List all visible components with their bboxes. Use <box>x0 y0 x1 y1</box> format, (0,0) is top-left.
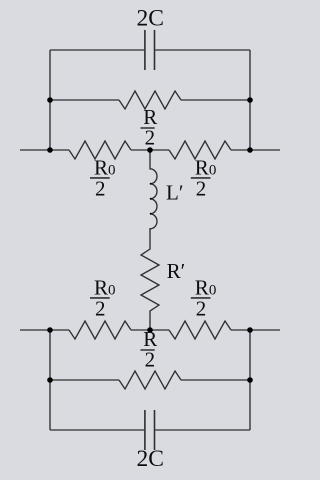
svg-text:L′: L′ <box>166 180 183 204</box>
svg-text:2: 2 <box>95 296 106 320</box>
svg-text:2: 2 <box>95 176 106 200</box>
svg-text:2: 2 <box>196 176 207 200</box>
svg-text:R′: R′ <box>167 259 186 283</box>
svg-text:2: 2 <box>145 347 156 371</box>
svg-text:2C: 2C <box>136 446 163 472</box>
svg-text:2: 2 <box>145 125 156 149</box>
svg-text:2C: 2C <box>136 5 163 31</box>
svg-text:2: 2 <box>196 296 207 320</box>
